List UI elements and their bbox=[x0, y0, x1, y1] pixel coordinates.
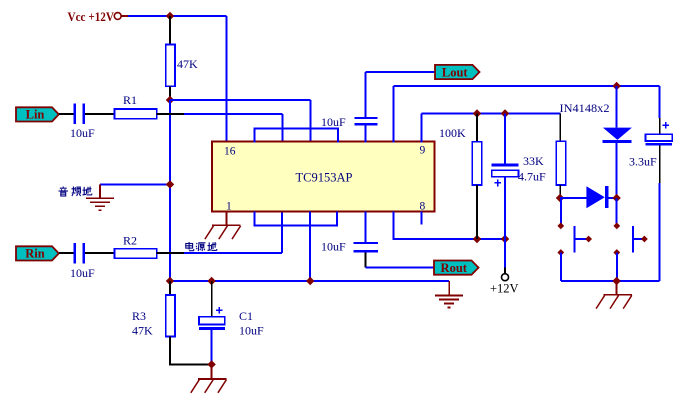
resistor R2 bbox=[115, 249, 157, 259]
capacitor 10uF Lout-coupling bbox=[355, 117, 378, 119]
ground switches (slant style) bbox=[616, 281, 618, 295]
wire Rin to C bbox=[59, 252, 74, 254]
wire pins15-12 bridge bbox=[254, 128, 337, 142]
svg-text:C1: C1 bbox=[239, 309, 253, 323]
svg-text:47K: 47K bbox=[132, 324, 153, 338]
ground audio (earth style) bbox=[99, 184, 101, 198]
resistor R 33K bbox=[556, 141, 565, 185]
ground bottom-left (slant style) bbox=[211, 364, 213, 379]
node rail239-12V bbox=[501, 235, 509, 243]
wire pin7 to +12V rail bbox=[393, 211, 505, 239]
svg-text:100K: 100K bbox=[439, 126, 466, 140]
op-amp U1 TC9153AP bbox=[212, 142, 434, 212]
svg-text:Rin: Rin bbox=[25, 247, 45, 261]
resistor R1 bbox=[115, 109, 157, 119]
capacitor 10uF Rin bbox=[74, 243, 77, 264]
wire pin6 lead bbox=[364, 211, 366, 242]
wire C to R2 bbox=[85, 252, 115, 254]
svg-text:33K: 33K bbox=[523, 154, 544, 168]
node 47K bottom junction bbox=[166, 96, 174, 104]
wire long vertical bus x170 bbox=[169, 100, 171, 281]
port Rout bbox=[434, 261, 479, 275]
resistor R3 bbox=[166, 295, 175, 337]
port Rin bbox=[16, 246, 59, 260]
capacitor 4.7uF polarized bbox=[492, 163, 519, 166]
wire C1 bottom lead bbox=[211, 330, 213, 365]
node C1-R3 bottom junction bbox=[207, 360, 215, 368]
svg-text:10uF: 10uF bbox=[321, 115, 346, 129]
wire C to R1 bbox=[85, 113, 115, 115]
wire R3 bottom lead bbox=[170, 337, 212, 365]
svg-text:TC9153AP: TC9153AP bbox=[296, 171, 353, 185]
wire R2 to pin3 bbox=[184, 252, 282, 254]
capacitor 10uF Lin bbox=[74, 104, 77, 125]
switch SW1 bbox=[557, 223, 564, 230]
wire R3 top lead bbox=[169, 281, 171, 295]
wire rail y198 left bbox=[560, 197, 586, 199]
node Vcc junction bbox=[166, 12, 174, 20]
wire rail y198 right bbox=[608, 197, 616, 199]
capacitor C1 10uF polarized bbox=[199, 317, 225, 325]
svg-text:9: 9 bbox=[420, 145, 426, 157]
wire SW1 top lead bbox=[560, 198, 562, 226]
svg-text:10uF: 10uF bbox=[70, 266, 95, 280]
wire audio-ground bbox=[100, 183, 170, 185]
wire pins2-5 bridge bbox=[254, 211, 337, 225]
capacitor 10uF Rout-coupling bbox=[354, 242, 379, 244]
capacitor 3.3uF polarized bbox=[646, 134, 673, 141]
power terminal Vcc +12V bbox=[114, 13, 121, 20]
wire R1 out black bbox=[157, 113, 184, 115]
wire 33K bottom lead bbox=[559, 185, 561, 198]
wire pin9 lead bbox=[420, 114, 422, 143]
text audio-ground label 音 频地 bbox=[62, 187, 64, 188]
switch SW2 bbox=[613, 223, 620, 230]
wire 100K top lead bbox=[476, 114, 478, 142]
wire cap to Rout corner bbox=[364, 252, 366, 267]
wire +12V drop bbox=[504, 239, 506, 267]
diode D2 (right) bbox=[586, 186, 604, 208]
wire D1 cathode lead bbox=[616, 143, 618, 198]
node rail281-pin4 bbox=[306, 277, 314, 285]
svg-text:+12V: +12V bbox=[490, 282, 519, 296]
wire 47K top lead bbox=[169, 16, 171, 45]
wire 47K bottom lead bbox=[169, 86, 171, 100]
wire node to pin13 bbox=[170, 99, 310, 101]
wire Vcc stub bbox=[122, 15, 129, 17]
svg-text:8: 8 bbox=[420, 201, 426, 213]
wire pin11 lead bbox=[365, 125, 367, 143]
wire D1 anode lead bbox=[616, 86, 618, 128]
svg-text:Lout: Lout bbox=[442, 65, 469, 79]
svg-text:Rout: Rout bbox=[441, 261, 468, 275]
wire SW2 top lead bbox=[616, 198, 618, 226]
wire 100K bottom lead bbox=[476, 185, 478, 239]
wire SW2 bottom lead bbox=[616, 253, 618, 282]
wire cap to Lout bbox=[365, 72, 367, 117]
svg-text:R3: R3 bbox=[132, 309, 146, 323]
svg-text:47K: 47K bbox=[177, 57, 198, 71]
wire R1 to pin14 bbox=[184, 113, 283, 115]
wire top rail y86 bbox=[393, 85, 659, 87]
wire pin4 lead bbox=[309, 211, 311, 281]
svg-text:3.3uF: 3.3uF bbox=[629, 155, 657, 169]
svg-text:Lin: Lin bbox=[26, 108, 45, 122]
wire pin8 stub bbox=[420, 211, 422, 224]
ground power (slant style) under pin1 bbox=[212, 224, 241, 226]
svg-text:1: 1 bbox=[226, 201, 232, 213]
wire 4.7uF bottom lead bbox=[504, 177, 506, 239]
diode D1 (down) bbox=[603, 128, 632, 140]
resistor R 100K bbox=[472, 142, 481, 185]
wire pin1 ground lead bbox=[226, 211, 228, 225]
node 33K bottom junction bbox=[556, 194, 564, 202]
wire 4.7uF top lead bbox=[504, 114, 506, 164]
port Lout bbox=[435, 65, 480, 79]
svg-text:10uF: 10uF bbox=[321, 240, 346, 254]
wire SW1 bottom lead bbox=[560, 253, 562, 282]
svg-text:Vcc +12V: Vcc +12V bbox=[68, 9, 115, 24]
node rail281-x170 bbox=[166, 277, 174, 285]
wire Lin to C bbox=[59, 113, 74, 115]
node audio-ground junction bbox=[166, 180, 174, 188]
wire R2 out black bbox=[157, 252, 184, 254]
node rail86-diode junction bbox=[612, 82, 620, 90]
svg-text:R1: R1 bbox=[123, 93, 137, 107]
svg-text:IN4148x2: IN4148x2 bbox=[560, 101, 610, 115]
svg-text:10uF: 10uF bbox=[239, 324, 264, 338]
node rail281-C1 bbox=[207, 277, 215, 285]
text power-ground label 电源地 bbox=[188, 242, 190, 250]
node rail113-100K bbox=[473, 109, 481, 117]
resistor R 47K bbox=[166, 45, 175, 87]
svg-text:16: 16 bbox=[224, 146, 236, 158]
wire C1 top lead bbox=[211, 281, 213, 317]
wire 33K top lead bbox=[559, 114, 561, 142]
ground signal (earth style) under Rout bbox=[448, 281, 450, 296]
svg-text:10uF: 10uF bbox=[70, 126, 95, 140]
wire Vcc rail to pin16 bbox=[128, 15, 227, 17]
node switch-ground junction bbox=[612, 277, 620, 285]
svg-text:4.7uF: 4.7uF bbox=[518, 170, 546, 184]
node rail113-4.7uF bbox=[501, 109, 509, 117]
node D1-D2 junction bbox=[612, 194, 620, 202]
wire ground rail y281 bbox=[170, 280, 449, 282]
node rail239-100K bbox=[473, 235, 481, 243]
wire pin10 lead bbox=[392, 86, 394, 142]
wire 3.3uF top lead bbox=[659, 86, 661, 118]
svg-text:R2: R2 bbox=[123, 234, 137, 248]
wire 3.3uF bottom lead bbox=[659, 146, 661, 183]
wire switch bottom rail bbox=[561, 280, 660, 282]
port Lin bbox=[16, 107, 59, 121]
wire rail y113 bbox=[421, 113, 560, 115]
power terminal +12V bbox=[502, 274, 509, 281]
